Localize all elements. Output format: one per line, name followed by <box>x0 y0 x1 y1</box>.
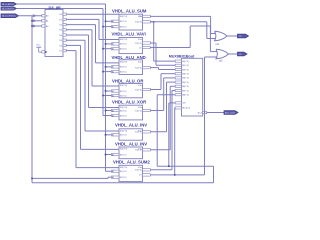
svg-text:S1(7:0): S1(7:0) <box>135 89 142 91</box>
svg-text:ALU_OP(2:0): ALU_OP(2:0) <box>2 15 15 18</box>
svg-text:B1(7:0): B1(7:0) <box>120 167 127 169</box>
svg-text:ALU_OUT: ALU_OUT <box>225 111 236 114</box>
svg-text:VHDL_ALU_XOR: VHDL_ALU_XOR <box>112 99 146 104</box>
svg-text:CIN: CIN <box>182 103 186 105</box>
svg-text:S1(7:0): S1(7:0) <box>135 110 142 112</box>
svg-text:B4(7:0): B4(7:0) <box>182 78 189 80</box>
svg-text:A1: A1 <box>112 153 114 156</box>
svg-text:B1(7:0): B1(7:0) <box>120 67 127 69</box>
svg-text:A1: A1 <box>112 43 114 46</box>
svg-text:A1: A1 <box>112 48 114 51</box>
svg-text:VHDL_ALU_INV: VHDL_ALU_INV <box>115 141 147 146</box>
svg-text:A1: A1 <box>112 176 114 179</box>
svg-text:A1: A1 <box>112 25 114 28</box>
svg-text:B1(7:0): B1(7:0) <box>120 110 127 112</box>
svg-text:B1(7:0): B1(7:0) <box>120 107 127 109</box>
svg-text:VHDL_ALU_SUM2: VHDL_ALU_SUM2 <box>113 159 150 164</box>
svg-text:B1(7:0): B1(7:0) <box>182 65 189 67</box>
svg-text:B1(7:0): B1(7:0) <box>120 21 127 23</box>
svg-text:B1(7:0): B1(7:0) <box>120 62 127 64</box>
svg-text:VHDL_ALU_SUM: VHDL_ALU_SUM <box>112 9 147 14</box>
svg-text:ALU_A(7:0): ALU_A(7:0) <box>2 3 14 6</box>
svg-text:B7(7:0): B7(7:0) <box>182 90 189 92</box>
svg-text:B0(7:0): B0(7:0) <box>182 61 189 63</box>
svg-text:VCC: VCC <box>36 44 41 46</box>
svg-text:B1(7:0): B1(7:0) <box>120 149 127 151</box>
svg-text:S1(7:0): S1(7:0) <box>135 67 142 69</box>
svg-text:B8(7:0): B8(7:0) <box>182 95 189 97</box>
svg-text:B1(7:0): B1(7:0) <box>120 135 127 137</box>
svg-text:A1: A1 <box>112 70 114 73</box>
svg-text:B2(7:0): B2(7:0) <box>182 69 189 71</box>
svg-text:B1(7:0): B1(7:0) <box>120 171 127 173</box>
svg-text:A1: A1 <box>112 134 114 137</box>
svg-text:Bout: Bout <box>198 111 203 114</box>
svg-text:A1: A1 <box>112 114 114 117</box>
svg-text:B1(7:0): B1(7:0) <box>120 91 127 93</box>
svg-text:B1(7:0): B1(7:0) <box>120 39 127 41</box>
svg-text:S1(7:0): S1(7:0) <box>135 170 142 172</box>
svg-text:B6(7:0): B6(7:0) <box>182 86 189 88</box>
svg-text:B1(7:0): B1(7:0) <box>120 85 127 87</box>
svg-text:B2(7:0): B2(7:0) <box>120 49 127 51</box>
svg-text:SEL(2:0): SEL(2:0) <box>182 108 190 110</box>
svg-text:B5(7:0): B5(7:0) <box>182 82 189 84</box>
svg-text:S1(7:0): S1(7:0) <box>135 150 142 152</box>
svg-text:B2(7:0): B2(7:0) <box>120 95 127 97</box>
svg-text:B1(7:0): B1(7:0) <box>120 44 127 46</box>
svg-text:A1: A1 <box>112 90 114 93</box>
svg-text:B3(7:0): B3(7:0) <box>182 74 189 76</box>
svg-text:VHDL_ALU_INV: VHDL_ALU_INV <box>115 123 147 128</box>
svg-text:A1: A1 <box>112 20 114 23</box>
svg-text:VHDL_ALU_VAVI: VHDL_ALU_VAVI <box>112 32 146 37</box>
svg-text:B2(7:0): B2(7:0) <box>120 115 127 117</box>
svg-text:B2(7:0): B2(7:0) <box>120 26 127 28</box>
svg-text:B2(7:0): B2(7:0) <box>120 177 127 179</box>
svg-text:B1(7:0): B1(7:0) <box>120 154 127 156</box>
svg-text:A1: A1 <box>112 109 114 112</box>
svg-text:ALU_B(7:0): ALU_B(7:0) <box>2 7 14 10</box>
svg-text:VHDL_ALU_OR: VHDL_ALU_OR <box>112 78 143 83</box>
svg-text:B1(7:0): B1(7:0) <box>120 131 127 133</box>
svg-text:B2(7:0): B2(7:0) <box>120 71 127 73</box>
svg-text:S1(7:0): S1(7:0) <box>135 43 142 45</box>
svg-text:A1: A1 <box>112 94 114 97</box>
svg-text:MUX8Bit1Bout: MUX8Bit1Bout <box>169 54 195 58</box>
svg-text:B1(7:0): B1(7:0) <box>120 16 127 18</box>
svg-text:A1: A1 <box>112 66 114 69</box>
svg-text:S1(7:0): S1(7:0) <box>135 22 142 24</box>
svg-text:S1(7:0): S1(7:0) <box>135 132 142 134</box>
svg-text:A1: A1 <box>112 170 114 173</box>
